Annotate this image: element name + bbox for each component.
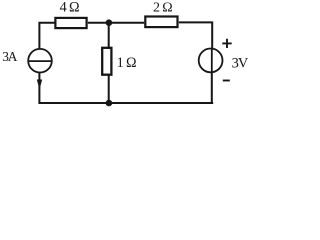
current source horizontal bar (28, 60, 51, 62)
svg-text:1 Ω: 1 Ω (117, 55, 136, 71)
wire: top rail right segment + right vertical drop to voltage source (179, 22, 212, 48)
wire: top rail left segment + left vertical drop to current source (39, 23, 54, 49)
plus polarity mark (222, 39, 231, 48)
voltage source 3V (circle) (199, 49, 223, 73)
current source 3A (circle) (28, 49, 52, 73)
wire: current source bottom lead down to bottom rail (38, 73, 40, 103)
wire: 1Ω resistor down to bottom junction (108, 75, 110, 102)
bottom rail wire (38, 102, 213, 104)
resistor 1Ω (vertical box, middle branch) (102, 48, 111, 75)
wire: voltage source bottom lead down to bottom rail (211, 72, 213, 103)
junction node (top, between 4Ω, 2Ω and 1Ω branch) (106, 19, 113, 26)
svg-text:2 Ω: 2 Ω (153, 1, 172, 16)
svg-text:4 Ω: 4 Ω (60, 0, 79, 16)
current direction arrowhead (pointing down) (37, 80, 42, 90)
wire: top junction down to 1Ω resistor (108, 24, 110, 48)
svg-text:3V: 3V (232, 55, 249, 71)
voltage source vertical bar (211, 49, 213, 73)
minus polarity mark (223, 80, 230, 82)
resistor 2Ω (horizontal box, top-right) (145, 17, 177, 28)
svg-text:3A: 3A (2, 49, 18, 64)
junction node (bottom) (106, 100, 113, 107)
resistor 4Ω (horizontal box, top-left) (55, 18, 86, 28)
wire: top rail between 4Ω and 2Ω (88, 22, 144, 24)
